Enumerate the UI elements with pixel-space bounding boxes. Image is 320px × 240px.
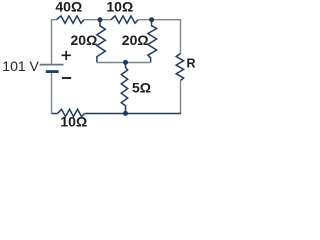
wire: bottom wire from bottom-right corner through node D to 10Ω (85, 113, 182, 115)
wire: top wire from 10Ω to top-right corner and down right rail (138, 20, 181, 54)
node B (junction dot after 10Ω) (149, 17, 154, 22)
svg-text:10Ω: 10Ω (60, 113, 87, 129)
resistor 10Ω bottom (horizontal zigzag) (58, 109, 85, 116)
node A (junction dot after 40Ω) (98, 17, 103, 22)
svg-text:40Ω: 40Ω (55, 0, 82, 14)
battery V 101 V: long positive plate (40, 64, 64, 66)
resistor 40Ω (top left horizontal zigzag) (57, 16, 85, 23)
svg-text:20Ω: 20Ω (122, 32, 149, 48)
wire: middle horizontal wire joining both 20Ω bottoms (97, 62, 151, 64)
resistor 20Ω right (vertical zigzag from node B) (148, 20, 157, 63)
wire: left rail top (battery + to top-left corner and top wire start) (52, 20, 57, 64)
battery V 101 V: short negative plate (46, 70, 59, 73)
wire: right rail below R to bottom-right corner (180, 81, 182, 114)
svg-text:5Ω: 5Ω (132, 79, 151, 95)
svg-text:101 V: 101 V (2, 58, 39, 74)
svg-text:R: R (187, 57, 196, 71)
resistor 20Ω left (vertical zigzag from node A) (97, 20, 105, 63)
svg-text:20Ω: 20Ω (71, 32, 98, 48)
label + (battery positive sign) (62, 51, 71, 60)
resistor R (right vertical zigzag) (176, 54, 183, 81)
node C (junction dot on middle wire) (123, 60, 128, 65)
label − (battery negative sign) (62, 77, 71, 79)
svg-text:10Ω: 10Ω (106, 0, 133, 14)
wire: left rail from battery negative down to bottom-left corner (51, 73, 53, 115)
wire: bottom wire stub from 10Ω to bottom-left corner (51, 113, 58, 115)
node D (junction dot on bottom wire) (123, 111, 128, 116)
resistor 10Ω (top horizontal zigzag) (111, 16, 138, 23)
resistor 5Ω (vertical zigzag from node C) (121, 63, 127, 114)
wire: top wire between 40Ω and 10Ω (84, 19, 111, 21)
